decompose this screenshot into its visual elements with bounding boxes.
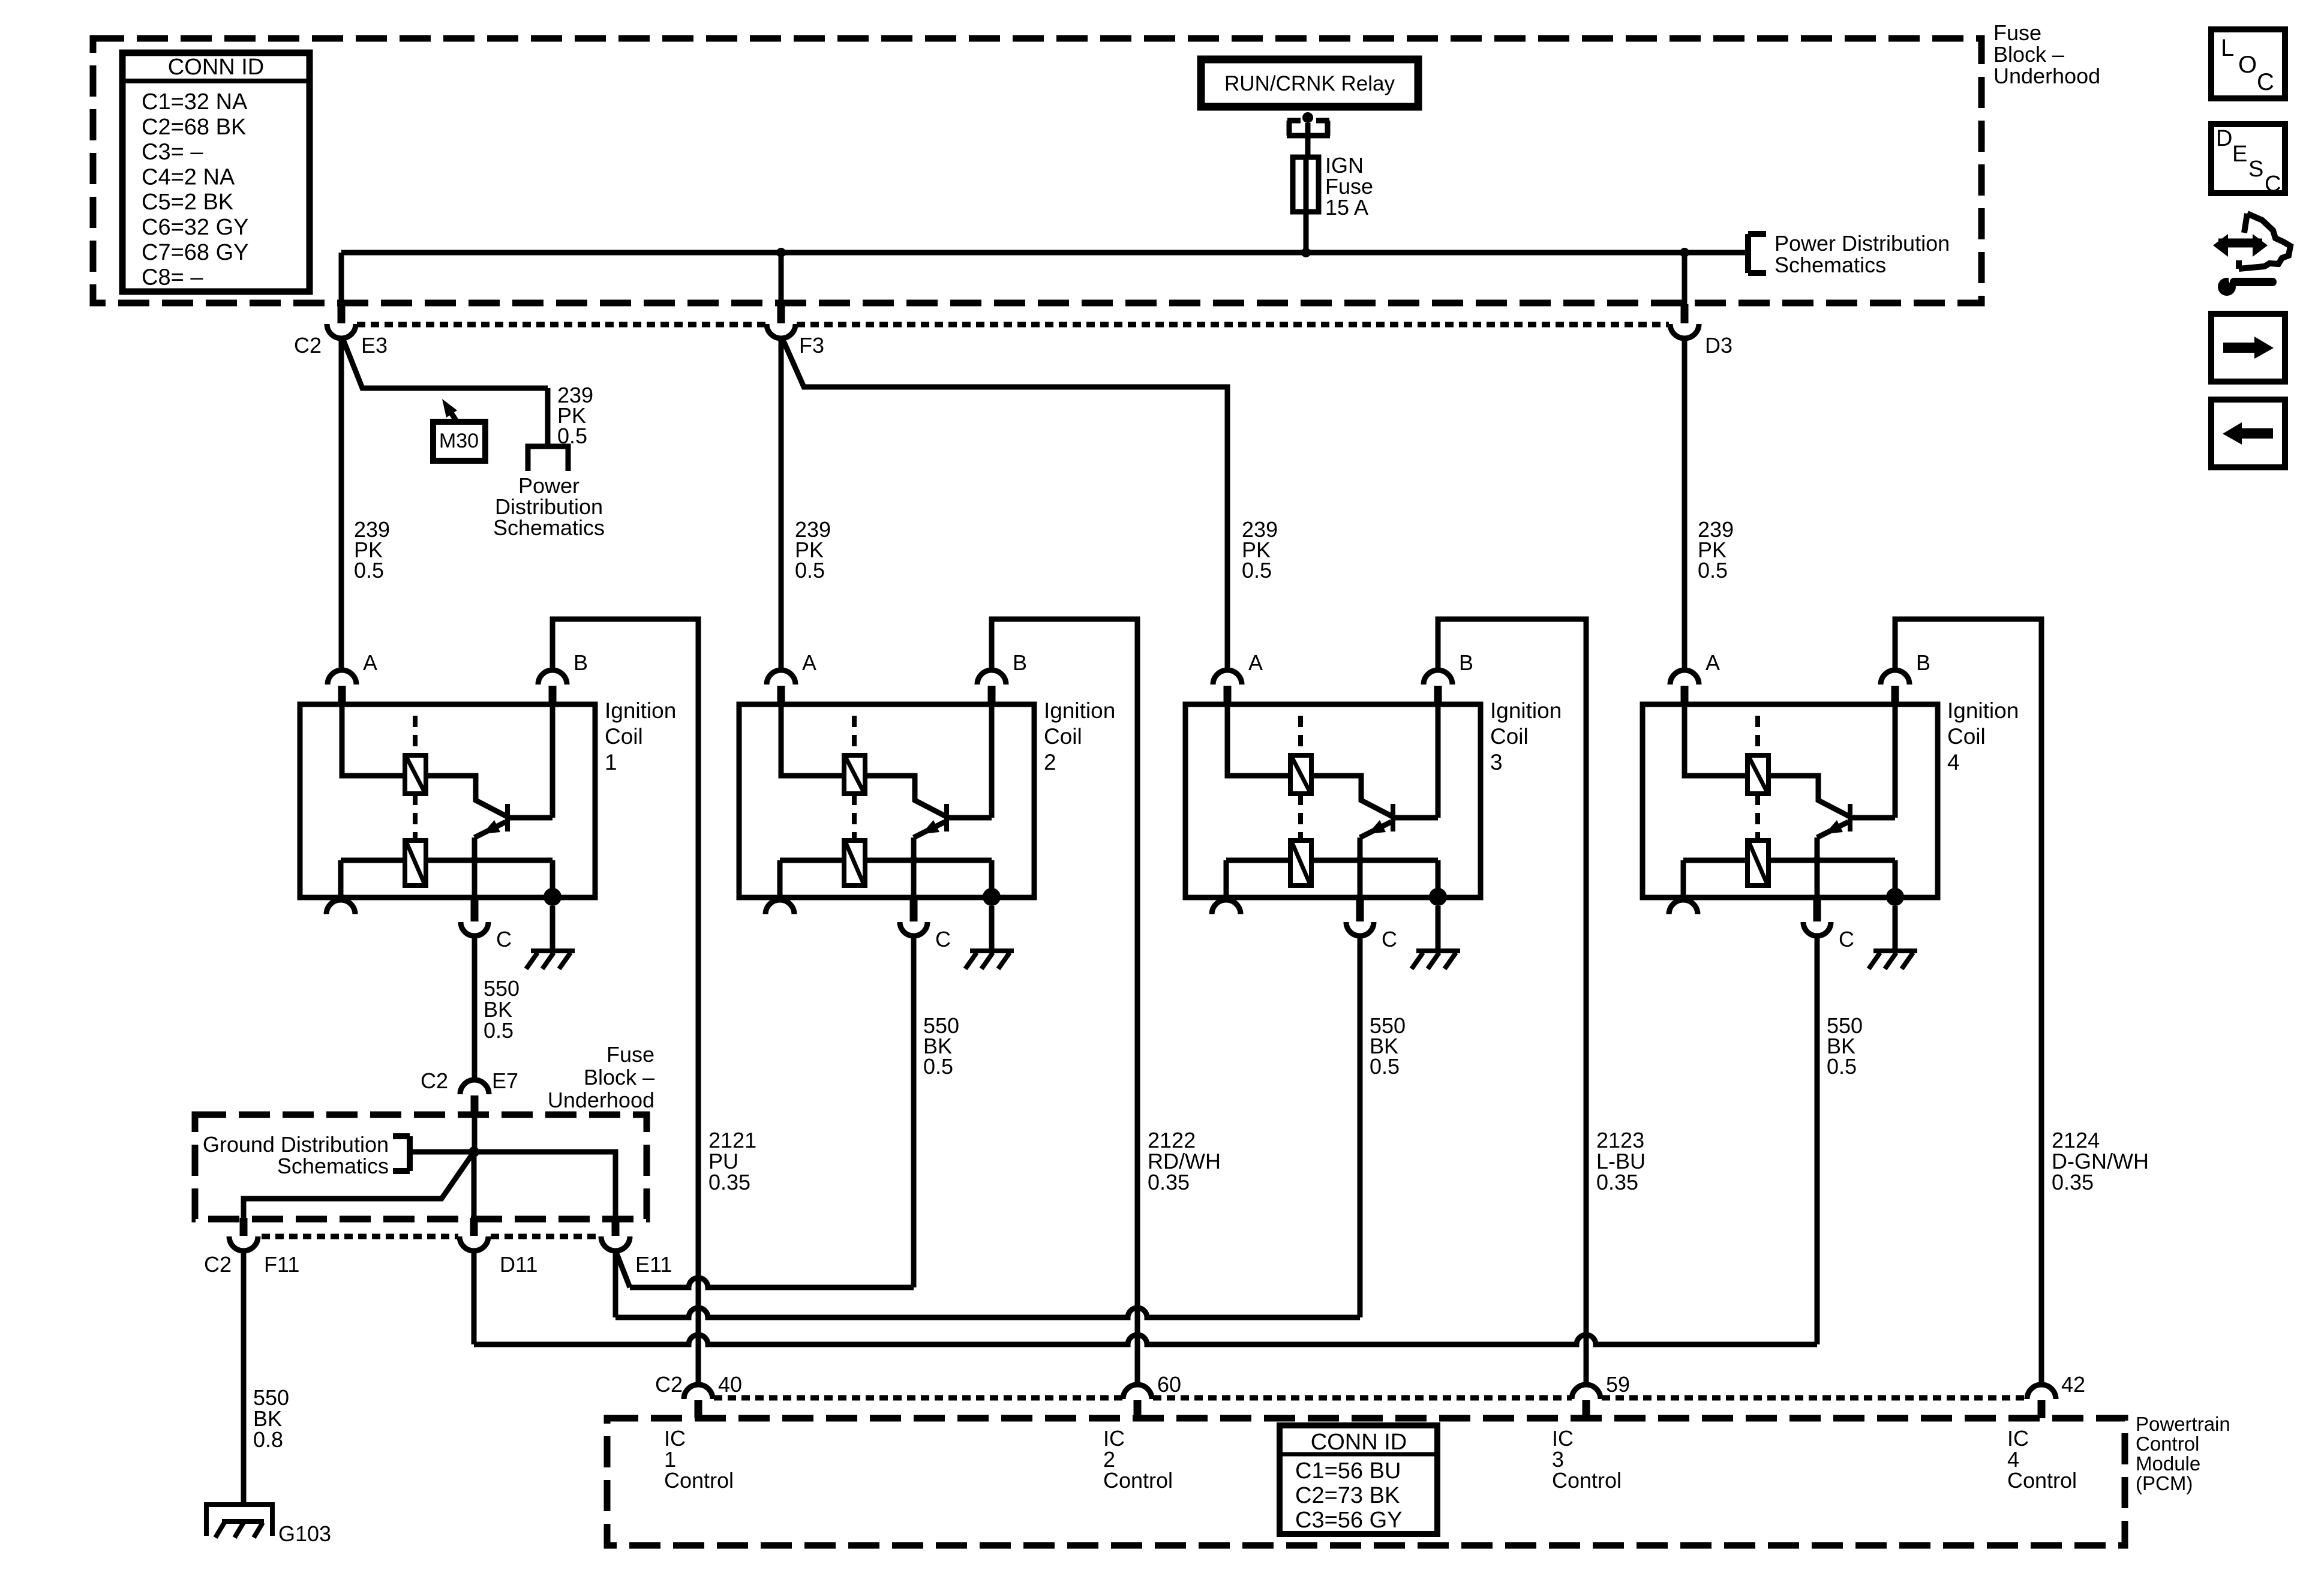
svg-text:Power Distribution: Power Distribution [1774,231,1950,256]
svg-text:(PCM): (PCM) [2136,1472,2193,1494]
svg-text:C: C [2257,69,2274,95]
svg-text:Schematics: Schematics [1774,253,1886,277]
svg-text:C8= –: C8= – [142,265,203,290]
svg-text:Underhood: Underhood [1993,64,2100,88]
svg-text:CONN ID: CONN ID [1311,1430,1407,1455]
svg-text:0.5: 0.5 [354,558,384,583]
svg-text:Control: Control [1552,1468,1622,1493]
svg-text:3: 3 [1490,750,1503,775]
svg-text:0.5: 0.5 [1827,1054,1857,1079]
svg-text:0.8: 0.8 [253,1427,283,1452]
svg-text:42: 42 [2061,1372,2085,1397]
svg-text:C7=68 GY: C7=68 GY [142,240,249,265]
svg-text:0.5: 0.5 [557,424,587,448]
svg-text:0.5: 0.5 [795,558,825,583]
svg-text:Ground Distribution: Ground Distribution [203,1132,389,1157]
svg-text:C: C [496,927,512,951]
svg-text:D: D [2216,126,2232,151]
svg-text:Coil: Coil [605,724,643,749]
svg-text:60: 60 [1157,1372,1181,1397]
svg-text:C5=2 BK: C5=2 BK [142,190,233,215]
svg-text:M30: M30 [439,430,479,452]
svg-text:E: E [2232,142,2247,167]
svg-text:Control: Control [2136,1433,2199,1455]
svg-text:Powertrain: Powertrain [2136,1413,2230,1435]
svg-text:B: B [574,650,588,675]
svg-text:C4=2 NA: C4=2 NA [142,164,235,190]
svg-text:B: B [1916,650,1930,675]
svg-text:Underhood: Underhood [548,1088,654,1112]
svg-text:Control: Control [2007,1468,2077,1493]
svg-text:C1=56 BU: C1=56 BU [1295,1458,1401,1484]
svg-text:CONN ID: CONN ID [168,55,264,80]
svg-text:F3: F3 [799,333,824,358]
svg-text:0.35: 0.35 [2052,1170,2094,1194]
svg-text:0.5: 0.5 [1242,558,1272,583]
svg-text:C2: C2 [294,333,322,358]
svg-text:A: A [802,650,816,675]
svg-text:Coil: Coil [1044,724,1082,749]
svg-text:A: A [363,650,377,675]
svg-text:4: 4 [1947,750,1960,775]
svg-text:0.5: 0.5 [484,1018,514,1043]
svg-text:O: O [2238,52,2257,78]
svg-text:G103: G103 [278,1521,331,1546]
svg-text:L: L [2221,35,2234,61]
svg-text:40: 40 [718,1372,742,1397]
svg-text:E11: E11 [635,1252,672,1277]
svg-text:1: 1 [605,750,617,775]
svg-text:Ignition: Ignition [1044,698,1115,723]
svg-text:RUN/CRNK Relay: RUN/CRNK Relay [1224,72,1395,95]
svg-text:C2: C2 [204,1252,232,1277]
svg-text:A: A [1706,650,1720,675]
svg-text:Schematics: Schematics [493,515,605,540]
svg-text:C1=32 NA: C1=32 NA [142,89,248,115]
svg-text:15 A: 15 A [1325,195,1368,220]
svg-text:A: A [1248,650,1263,675]
svg-text:59: 59 [1606,1372,1630,1397]
svg-text:S: S [2248,157,2263,182]
svg-text:Schematics: Schematics [277,1154,389,1178]
svg-text:0.35: 0.35 [708,1170,750,1194]
svg-text:B: B [1459,650,1473,675]
svg-text:Ignition: Ignition [1947,698,2019,723]
svg-text:0.5: 0.5 [1370,1054,1400,1079]
svg-text:Ignition: Ignition [1490,698,1562,723]
svg-text:Fuse: Fuse [1993,20,2041,45]
svg-text:Coil: Coil [1490,724,1529,749]
svg-text:Fuse: Fuse [606,1042,654,1067]
svg-text:Control: Control [664,1468,734,1493]
svg-text:C3=56 GY: C3=56 GY [1295,1508,1403,1533]
svg-text:E7: E7 [492,1068,518,1093]
svg-text:B: B [1013,650,1027,675]
svg-text:Module: Module [2136,1452,2200,1475]
svg-text:F11: F11 [264,1252,299,1277]
svg-text:Control: Control [1103,1468,1173,1493]
svg-text:0.5: 0.5 [1698,558,1728,583]
svg-text:D11: D11 [500,1252,538,1277]
svg-text:C2=73 BK: C2=73 BK [1295,1483,1400,1508]
svg-text:Block –: Block – [584,1065,654,1089]
svg-text:C2=68 BK: C2=68 BK [142,115,246,140]
svg-text:C2: C2 [421,1068,448,1093]
svg-text:C: C [1839,927,1854,951]
svg-text:C2: C2 [655,1372,683,1397]
svg-text:0.5: 0.5 [923,1054,953,1079]
svg-text:Block –: Block – [1993,42,2064,67]
svg-text:C: C [935,927,951,951]
svg-text:C3= –: C3= – [142,140,203,165]
svg-text:E3: E3 [361,333,388,358]
svg-text:0.35: 0.35 [1148,1170,1190,1194]
svg-text:D3: D3 [1705,333,1733,358]
svg-text:2: 2 [1044,750,1056,775]
svg-text:C: C [1382,927,1397,951]
svg-text:Ignition: Ignition [605,698,676,723]
svg-text:C6=32 GY: C6=32 GY [142,215,249,240]
svg-text:0.35: 0.35 [1596,1170,1638,1194]
svg-text:Coil: Coil [1947,724,1986,749]
svg-text:C: C [2265,172,2281,197]
